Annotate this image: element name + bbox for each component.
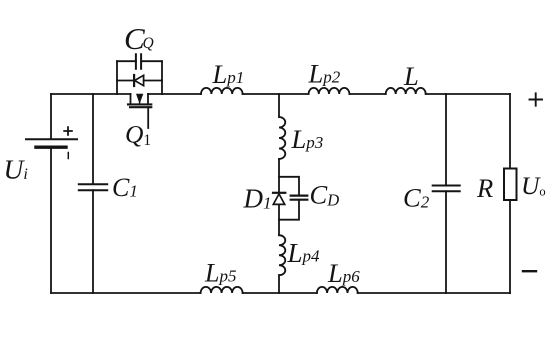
svg-text:Q1: Q1	[125, 120, 151, 150]
wire snubber middle edge	[117, 80, 162, 82]
label Q1	[125, 120, 151, 150]
wire left rail upper	[50, 94, 52, 139]
diode body of Q1	[134, 75, 144, 86]
svg-text:D1: D1	[243, 184, 272, 214]
wire middle branch (D1 to Lp4)	[278, 204, 280, 235]
snubber box left edge	[116, 61, 118, 94]
wire right rail lower	[509, 200, 511, 293]
svg-text:Lp2: Lp2	[308, 59, 341, 89]
label minus output	[523, 270, 536, 272]
inductor Lp6	[317, 287, 358, 293]
wire middle branch top	[278, 94, 280, 117]
capacitor C2	[433, 186, 460, 192]
wire left rail lower	[50, 147, 52, 293]
transistor Q1	[128, 94, 151, 128]
label Lp2	[308, 59, 341, 89]
label CD	[310, 180, 340, 210]
label plus output	[530, 93, 543, 105]
label Lp5	[204, 259, 236, 288]
wire bottom rail right segment	[358, 292, 510, 294]
resistor R	[504, 169, 517, 201]
svg-text:C1: C1	[112, 173, 138, 202]
label L	[403, 61, 419, 91]
label Lp3	[291, 124, 324, 154]
snubber box right edge	[161, 61, 163, 94]
label Ui	[4, 154, 28, 185]
svg-text:Lp3: Lp3	[291, 124, 324, 154]
capacitor CD	[291, 196, 308, 200]
label Lp4	[287, 238, 321, 268]
wire top rail (Lp2 to L)	[349, 93, 385, 95]
svg-text:Lp1: Lp1	[212, 59, 245, 89]
battery plus mark	[64, 127, 72, 135]
wire bottom rail mid segment	[243, 292, 317, 294]
capacitor C1	[79, 184, 107, 190]
label Lp6	[327, 258, 360, 288]
capacitor CQ	[136, 54, 141, 68]
wire top rail right segment	[426, 93, 510, 95]
svg-text:Uo: Uo	[521, 171, 546, 200]
svg-text:CQ: CQ	[124, 21, 154, 56]
wire top rail left segment	[51, 93, 131, 95]
label R	[476, 173, 493, 203]
label D1	[243, 184, 272, 214]
battery minus mark	[67, 153, 69, 159]
svg-text:Lp6: Lp6	[327, 258, 360, 288]
wire middle branch (Lp3 to D1 section)	[278, 159, 280, 193]
wire C2 branch upper	[445, 94, 447, 185]
wire snubber top edge with CQ	[117, 60, 162, 62]
label Uo	[521, 171, 546, 200]
wire top rail (Lp1 to Lp2, junction at node mid)	[243, 93, 309, 95]
wire top rail mid segment (box to Lp1)	[148, 93, 201, 95]
label CQ	[124, 21, 154, 56]
svg-text:CD: CD	[310, 180, 340, 210]
diode D1	[273, 193, 285, 205]
inductor Lp1	[201, 88, 243, 94]
inductor Lp4	[279, 235, 285, 275]
label Lp1	[212, 59, 245, 89]
wire CD bracket top	[279, 177, 299, 196]
wire C1 branch lower	[92, 190, 94, 293]
svg-text:Ui: Ui	[4, 154, 28, 185]
battery Ui negative plate	[36, 145, 66, 148]
wire right rail upper	[509, 94, 511, 169]
battery Ui positive plate	[26, 138, 77, 140]
inductor L	[386, 88, 426, 94]
svg-text:R: R	[476, 173, 493, 203]
wire CD bracket bottom	[279, 200, 299, 220]
label C1	[112, 173, 138, 202]
wire middle branch bottom	[278, 275, 280, 293]
label C2	[403, 183, 430, 213]
svg-text:L: L	[403, 61, 419, 91]
inductor Lp3	[279, 117, 285, 159]
inductor Lp5	[201, 287, 243, 293]
inductor Lp2	[309, 88, 350, 94]
svg-text:Lp4: Lp4	[287, 238, 321, 268]
wire bottom rail left segment	[51, 292, 201, 294]
svg-text:Lp5: Lp5	[204, 259, 236, 288]
svg-text:C2: C2	[403, 183, 430, 213]
wire C2 branch lower	[445, 191, 447, 293]
wire C1 branch upper	[92, 94, 94, 184]
